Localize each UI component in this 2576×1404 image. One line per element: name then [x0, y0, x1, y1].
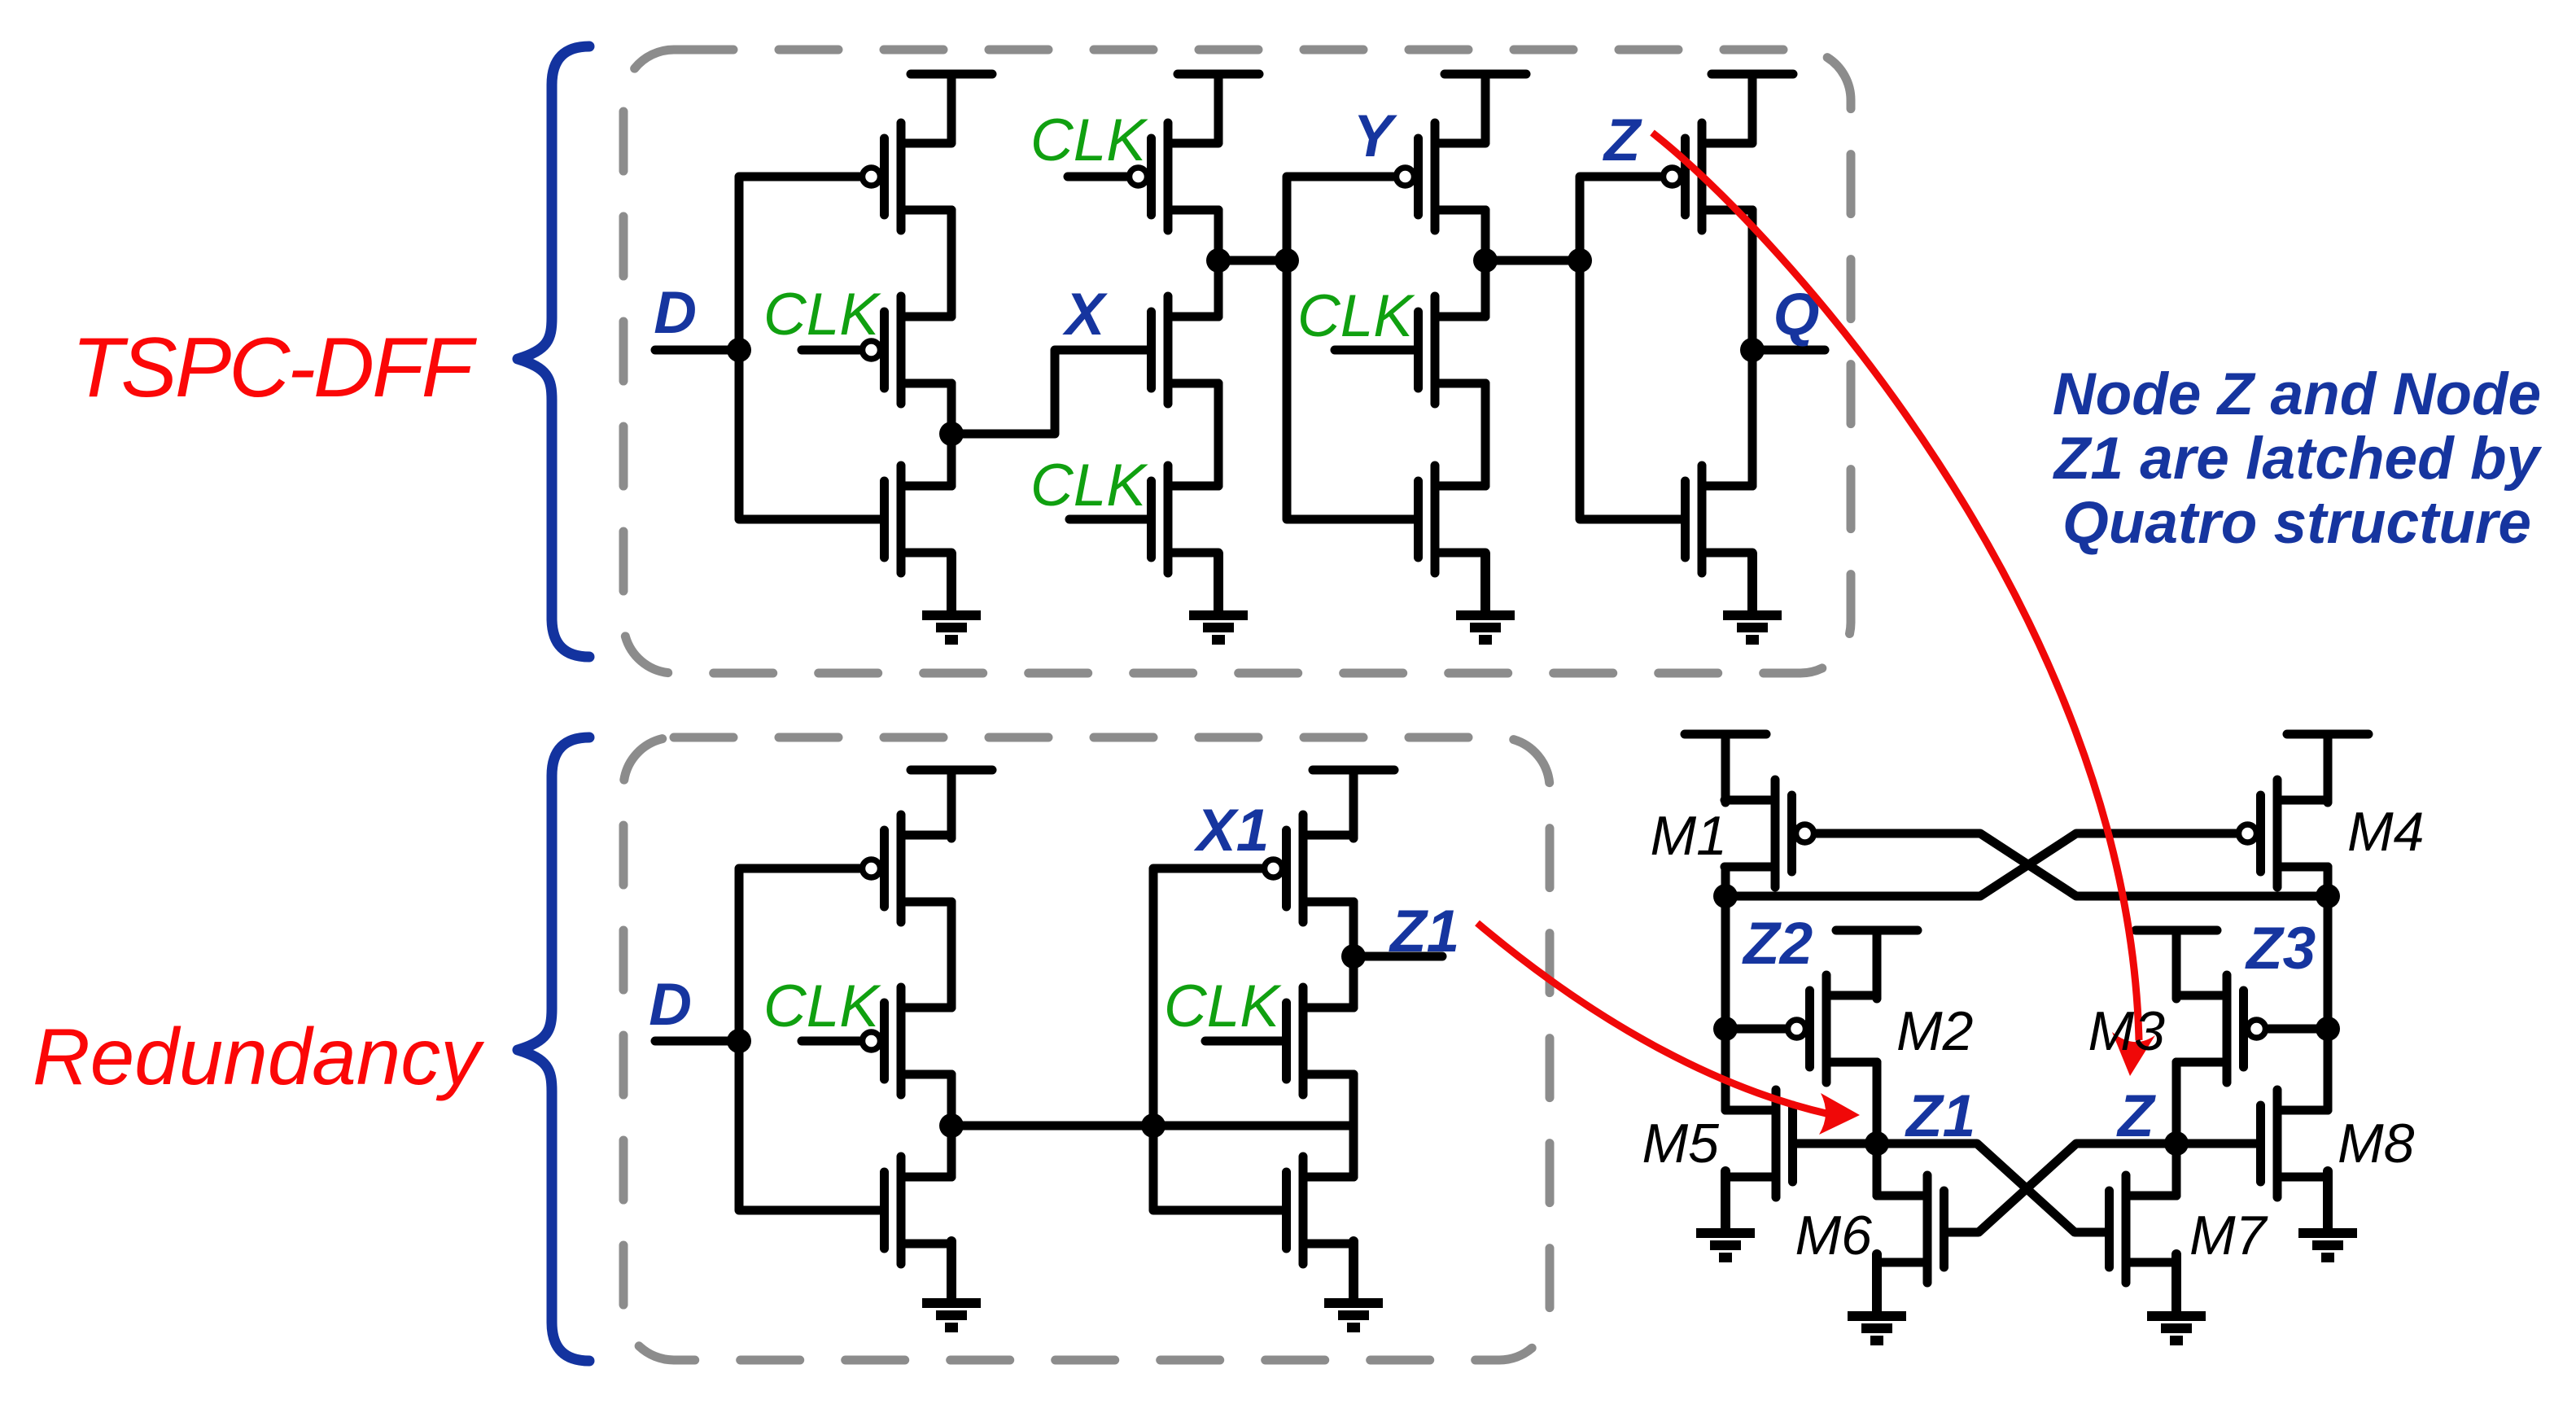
ground redundancy stage 1: [922, 1241, 981, 1327]
node X output junction dot: [939, 422, 964, 446]
svg-text:M4: M4: [2347, 801, 2424, 863]
wire Z1 cross to M7 gate: [1877, 1144, 2105, 1232]
pmos P1 stage1 (gate D): [863, 123, 952, 230]
svg-text:Z1: Z1: [1389, 899, 1459, 964]
nmos stage2 (gate X): [1152, 296, 1219, 404]
svg-text:Quatro structure: Quatro structure: [2062, 490, 2531, 556]
dashed box TSPC-DFF block: [623, 50, 1851, 673]
pmos P2 redundancy stage1 (gate CLK): [863, 987, 952, 1095]
wire P1 drain to P2 source redundancy: [947, 902, 956, 1008]
wire P1 gate to D column: [739, 177, 859, 350]
ground M5: [1696, 1171, 1755, 1257]
red arrow curve from node Z to Quatro M3 region: [1652, 133, 2139, 1040]
svg-text:Z3: Z3: [2245, 916, 2316, 982]
svg-text:M2: M2: [1896, 1000, 1973, 1062]
wire stage2 mid nmos source to bottom nmos drain: [1349, 1074, 1358, 1177]
ground M7: [2147, 1254, 2206, 1341]
svg-text:CLK: CLK: [763, 973, 881, 1039]
wire M3 gate stub: [2268, 1025, 2328, 1034]
wire stage3 mid nmos source to bottom nmos drain: [1481, 383, 1490, 486]
pmos stage2 (gate CLK): [1130, 123, 1219, 230]
wire D input redundancy: [655, 1037, 739, 1046]
wire CLK stub stage3: [1335, 346, 1414, 355]
node Y junction dot B: [1275, 248, 1299, 273]
svg-text:CLK: CLK: [1164, 973, 1282, 1039]
svg-text:M3: M3: [2088, 1000, 2166, 1062]
node Y junction dot A: [1206, 248, 1231, 273]
wire stage2 mid nmos source to bottom nmos drain: [1214, 383, 1223, 486]
wire X1 gate column: [1153, 868, 1262, 1126]
VDD rail redundancy stage 2: [1313, 770, 1394, 838]
wire X step to stage2 gate: [951, 350, 1147, 434]
VDD rail stage 3: [1445, 74, 1526, 142]
pmos M4 (gate left): [2239, 780, 2329, 887]
wire X1 column down to bottom nmos gate: [1153, 1126, 1282, 1210]
VDD rail M4: [2287, 734, 2368, 803]
pmos M2 (gate left): [1788, 975, 1878, 1083]
wire M2 gate stub: [1725, 1025, 1785, 1034]
nmos N1 stage1 (gate D): [885, 466, 952, 573]
svg-text:M6: M6: [1795, 1205, 1873, 1266]
red arrowhead at M3: [2112, 1032, 2155, 1076]
node D junction dot: [727, 338, 751, 362]
wire X1 node extension to stage2 link: [1153, 1122, 1354, 1131]
svg-text:X: X: [1062, 282, 1109, 348]
ground stage 2: [1189, 553, 1248, 640]
wire M5 gate stub from Z1: [1797, 1139, 1877, 1148]
wire pmos drain to nmos drain redundancy stage2: [1349, 902, 1358, 1008]
svg-text:CLK: CLK: [763, 282, 881, 348]
wire Z2 cross to M4 gate: [1725, 833, 2236, 896]
wire M7 drain up to Z: [2172, 1144, 2181, 1196]
node Z junction dot A: [1473, 248, 1498, 273]
node X1 junction dot B: [1141, 1113, 1166, 1138]
wire Z3 column down: [2324, 896, 2333, 1110]
wire CLK stub stage1: [802, 346, 859, 355]
pmos stage4 (gate Z): [1664, 123, 1753, 230]
wire Z2 column down: [1721, 896, 1730, 1110]
nmos M8 (gate left): [2261, 1090, 2329, 1197]
wire D input: [655, 346, 739, 355]
VDD tap M3: [2136, 930, 2217, 999]
nmos stage4 (gate Z): [1686, 466, 1753, 573]
svg-text:M7: M7: [2189, 1205, 2268, 1266]
wire CLK stub stage2 top: [1068, 173, 1126, 182]
node Z1 junction dot redundancy: [1341, 944, 1366, 969]
VDD rail redundancy stage 1: [911, 770, 992, 838]
svg-text:Z2: Z2: [1742, 911, 1813, 977]
node D junction dot redundancy: [727, 1029, 751, 1053]
wire Z column up to stage4 pmos gate: [1580, 177, 1660, 260]
svg-text:CLK: CLK: [1297, 283, 1415, 349]
pmos redundancy stage2 (gate X1): [1265, 815, 1354, 922]
svg-text:Z1 are latched by: Z1 are latched by: [2053, 426, 2543, 492]
wire Z column down to stage4 nmos gate: [1580, 260, 1681, 519]
node Z junction dot quatro: [2164, 1131, 2189, 1156]
node M2 gate tap junction dot: [1713, 1017, 1738, 1041]
nmos N1 redundancy stage1 (gate D): [885, 1157, 952, 1264]
svg-text:Z: Z: [2116, 1083, 2156, 1149]
nmos stage2 bottom (gate CLK): [1152, 466, 1219, 573]
svg-text:Y: Y: [1354, 103, 1398, 169]
ground stage 4: [1723, 553, 1782, 640]
node Z3 junction dot: [2316, 884, 2340, 908]
pmos stage3 (gate Y): [1397, 123, 1486, 230]
svg-text:CLK: CLK: [1030, 107, 1148, 173]
svg-text:Node Z and Node: Node Z and Node: [2053, 361, 2541, 427]
wire Z1 output redundancy: [1354, 952, 1442, 961]
nmos redundancy stage2 bottom (gate X1): [1287, 1157, 1354, 1264]
ground M6: [1848, 1254, 1906, 1341]
nmos redundancy stage2 (gate CLK): [1287, 987, 1354, 1095]
nmos M5 (mirrored, gate right): [1725, 1090, 1793, 1197]
pmos P1 redundancy stage1 (gate D): [863, 815, 952, 922]
wire CLK stub stage2 bottom: [1069, 515, 1147, 524]
dashed box Redundancy block: [623, 737, 1550, 1360]
ground M8: [2298, 1171, 2357, 1257]
wire Y node link: [1218, 256, 1287, 265]
brace for TSPC-DFF block: [518, 46, 589, 657]
wire Z node link: [1485, 256, 1580, 265]
svg-text:M1: M1: [1651, 805, 1727, 867]
wire CLK stub redundancy stage1: [802, 1037, 859, 1046]
wire M4 drain to node Z3: [2324, 867, 2333, 896]
wire M8 source to ground: [2324, 1177, 2333, 1228]
wire M2 drain down to node Z1: [1873, 1062, 1882, 1144]
wire M3 drain down to node Z: [2172, 1062, 2181, 1144]
ground redundancy stage 2: [1324, 1241, 1383, 1327]
wire D column to N1 gate redundancy: [739, 1041, 880, 1210]
wire P2 drain to N1 drain (output link): [947, 383, 956, 486]
wire M8 gate stub from Z: [2176, 1139, 2256, 1148]
wire P1 drain to P2 source: [947, 210, 956, 317]
svg-text:Z1: Z1: [1905, 1083, 1975, 1149]
svg-text:TSPC-DFF: TSPC-DFF: [72, 321, 478, 415]
node Z1 junction dot quatro: [1865, 1131, 1889, 1156]
svg-text:D: D: [649, 972, 692, 1038]
svg-text:Redundancy: Redundancy: [33, 1012, 484, 1101]
brace for Redundancy block: [518, 737, 589, 1361]
wire M1 drain to node Z2: [1721, 867, 1730, 896]
svg-text:X1: X1: [1193, 798, 1269, 864]
red arrow curve from node Z1 to Quatro Z1: [1477, 923, 1830, 1114]
nmos M6 (mirrored, gate right): [1877, 1175, 1944, 1283]
ground stage 1: [922, 553, 981, 640]
node M3 gate tap junction dot: [2316, 1017, 2340, 1041]
VDD rail stage 4: [1712, 74, 1793, 142]
svg-text:CLK: CLK: [1030, 453, 1148, 518]
red arrowhead at Z1 quatro: [1819, 1093, 1860, 1135]
wire pmos drain to nmos drain stage3: [1481, 210, 1490, 317]
node Z junction dot B: [1568, 248, 1592, 273]
wire Z cross to M6 gate: [1948, 1144, 2176, 1232]
pmos P2 stage1 (gate CLK): [863, 296, 952, 404]
node Z2 junction dot: [1713, 884, 1738, 908]
wire Y column up to stage3 pmos gate: [1287, 177, 1393, 260]
wire P2 drain to N1 drain redundancy: [947, 1074, 956, 1177]
wire M6 source to ground: [1873, 1262, 1882, 1311]
svg-text:M5: M5: [1642, 1113, 1720, 1174]
svg-text:M8: M8: [2338, 1113, 2415, 1174]
VDD rail M1: [1685, 734, 1766, 803]
wire Y column down to stage3 nmos gate: [1287, 260, 1414, 519]
nmos M7 (gate left): [2110, 1175, 2177, 1283]
wire X1 node link: [951, 1122, 1153, 1131]
nmos stage3 (gate CLK): [1419, 296, 1486, 404]
pmos M3 (mirrored, gate right): [2176, 975, 2266, 1083]
wire Q output: [1752, 346, 1825, 355]
svg-text:D: D: [654, 280, 697, 346]
VDD rail stage 1: [911, 74, 992, 142]
svg-text:Z: Z: [1603, 107, 1642, 173]
pmos M1 (mirrored, gate right): [1725, 780, 1814, 887]
wire pmos drain to nmos drain stage2: [1214, 210, 1223, 317]
node X1 output junction dot: [939, 1113, 964, 1138]
wire M1 gate cross to Z3: [1817, 833, 2328, 896]
wire P1 gate to D column redundancy: [739, 868, 859, 1041]
VDD tap M2: [1836, 930, 1918, 999]
wire M6 drain up to Z1: [1873, 1144, 1882, 1196]
VDD rail stage 2: [1178, 74, 1259, 142]
wire M7 source to ground: [2172, 1262, 2181, 1311]
wire stage4 drain link through Q: [1748, 210, 1757, 486]
ground stage 3: [1456, 553, 1515, 640]
wire D column to N1 gate: [739, 350, 880, 519]
node Q junction dot: [1740, 338, 1765, 362]
nmos stage3 bottom (gate Y): [1419, 466, 1486, 573]
wire CLK stub redundancy stage2: [1205, 1037, 1282, 1046]
wire M5 source to ground: [1721, 1177, 1730, 1228]
